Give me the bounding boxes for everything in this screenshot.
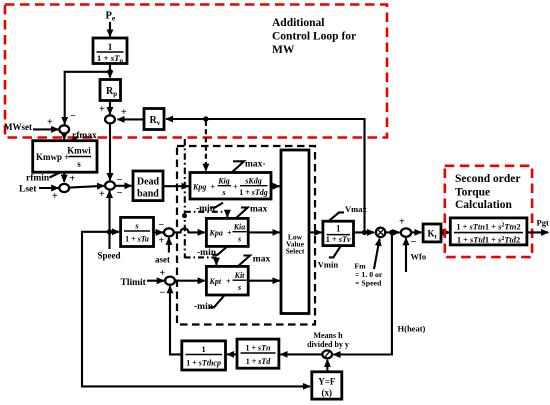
wire S3 to Kt [412,231,422,233]
svg-text:max-: max- [245,160,266,170]
dash-dot tracking horizontal to Kpa [185,211,228,213]
block Kpa + Kia/s [206,218,248,246]
wire Fm to X [374,239,380,269]
summer S1 [105,115,115,123]
svg-text:Y=F: Y=F [318,377,336,387]
wire aset summer to Kpa with hop [174,228,205,232]
svg-text:s: s [237,235,241,244]
summer Tlimit [165,277,175,285]
svg-text:rfmin: rfmin [26,174,50,184]
junction dot after X [389,230,394,235]
svg-text:Kmwp +: Kmwp + [36,152,69,162]
svg-text:-min: -min [197,248,217,258]
limit tick min Kpa [213,246,228,254]
svg-text:band: band [137,189,159,200]
divider circle h/y [322,350,332,358]
svg-text:+: + [211,183,216,192]
block 1/(1+sTv) [323,221,354,245]
summer MWset [59,125,69,133]
wire Y=F to divider [326,360,328,372]
svg-text:1 + sTtn1 + s2Ttn2: 1 + sTtn1 + s2Ttn2 [456,222,520,231]
wire sTa block to aset summer [154,231,163,233]
block s/(1+sTa) [121,217,154,246]
svg-text:−: − [160,288,166,299]
svg-text:Kpt: Kpt [209,277,222,286]
svg-text:+: + [47,117,53,128]
svg-text:−: − [70,111,76,122]
wire Tlimit summer to Kpt [175,280,204,282]
svg-text:−: − [117,175,123,186]
multiplier X [376,228,385,237]
svg-text:+: + [226,277,231,286]
svg-text:aset: aset [155,255,170,265]
wire Tthcp block to Tlimit summer [170,286,182,354]
wire H(heat): junction down and left to divider [333,232,392,354]
wire Kmw block to Lset summer [63,172,65,182]
svg-text:Kit: Kit [234,271,246,280]
svg-text:Control Loop for: Control Loop for [272,31,356,43]
svg-text:Dead: Dead [137,177,160,188]
black dashed controller box [177,146,315,325]
block Dead band [133,171,163,201]
svg-text:max: max [253,254,271,264]
svg-text:MWset: MWset [4,122,32,132]
svg-text:divided by y: divided by y [307,340,349,349]
wire Kt to torque block [441,231,450,233]
label Second order Torque Calculation [455,173,520,211]
label: Additional Control Loop for MW [272,17,356,56]
svg-text:−: − [411,237,417,248]
limit tick min Kpg [210,203,223,208]
label Fm = 1.0 or = Speed [354,262,383,288]
svg-text:Tlimit: Tlimit [121,278,147,288]
limit tick max Kpa [236,208,248,219]
block 1/(1+sTp) [93,38,127,65]
svg-text:H(heat): H(heat) [398,324,426,334]
wire Wfo to S3 [405,238,407,272]
limit tick rfmin [50,172,61,177]
svg-text:s: s [77,159,81,169]
svg-text:+: + [52,191,58,202]
svg-text:Additional: Additional [272,17,324,29]
block Kpg + Kig/s + sKdg/(1+sTdg) [190,173,271,200]
wire Kpt to LVS [248,280,279,282]
block (1+sTn)/(1+sTd) [237,339,279,368]
block Kmwp + Kmwi/s [33,141,97,173]
limit tick rfmax [71,137,79,142]
limit tick Vmax [329,212,345,221]
wire Tlimit to summer [147,280,164,282]
svg-text:+: + [233,183,238,192]
svg-text:1: 1 [201,344,205,354]
arrow into Kpt top [215,257,217,265]
junction dot V output [362,230,367,235]
svg-text:= Speed: = Speed [355,279,382,288]
wire Lset summer to S2 [70,186,104,188]
junction dot on tracking line [182,213,187,218]
svg-text:+: + [159,236,165,247]
wire torque block to Pgt output [527,231,548,233]
svg-text:Calculation: Calculation [455,199,512,211]
svg-text:+: + [227,229,232,238]
svg-text:1 + sTa: 1 + sTa [125,235,149,244]
limit tick max Kpg [232,161,244,172]
svg-text:−: − [117,188,123,199]
svg-text:1 + sTtd1 + s2Ttd2: 1 + sTtd1 + s2Ttd2 [457,236,520,245]
svg-text:+: + [160,268,166,279]
block Rv [144,109,164,130]
wire aset up to summer [168,238,170,253]
svg-text:s: s [237,283,241,292]
wire Rp to summer S1 [109,101,111,115]
wire Lset to summer [39,187,58,189]
svg-text:+: + [121,107,127,118]
wire Tn block to Tthcp block [227,353,237,355]
svg-text:Select: Select [286,247,305,256]
wire Kpg to LVS [271,185,280,187]
summer S3 [401,228,411,236]
wire Tv block to junction and X [354,231,375,233]
svg-text:s: s [134,221,139,231]
wire divider to Tn block [281,353,323,355]
svg-text:MW: MW [272,44,295,56]
block Kt [423,224,441,242]
block Rp [100,80,121,101]
svg-text:1 + sTn: 1 + sTn [245,344,271,353]
wire Dead band to Kpg [163,185,189,187]
svg-text:Pgt: Pgt [537,218,549,228]
svg-text:Lset: Lset [19,185,37,195]
wire Pe to block Tp [109,22,111,37]
arrow into Kpa top [226,212,228,217]
wire branch left down to MWset summer [65,72,110,124]
svg-text:+: + [399,217,405,228]
dash-dot tracking horizontal to Kpt [185,256,217,258]
svg-text:max: max [250,205,268,215]
svg-text:+: + [99,104,105,115]
svg-text:1 + sTdg: 1 + sTdg [239,188,268,197]
svg-text:1: 1 [108,42,113,52]
svg-text:1 + sTp: 1 + sTp [97,53,124,65]
svg-text:Wfo: Wfo [411,252,427,262]
svg-text:Kmwi: Kmwi [67,146,91,156]
svg-text:Means h: Means h [313,331,343,340]
svg-text:sKdg: sKdg [244,177,261,186]
svg-text:1 + sTd: 1 + sTd [246,357,272,366]
block 1/(1+sTthcp) [182,341,226,370]
feedback wire V to Rv [166,119,365,232]
wire S1 down to summer S2 [109,124,111,180]
wire Speed junction to sTa block [110,231,120,233]
svg-text:+: + [70,174,76,185]
svg-text:−: − [159,220,165,231]
red dashed box: Additional Control Loop for MW [5,5,387,138]
wire Tp block to Rp block [109,64,111,78]
wire Speed junction to Y=F(x) [82,232,310,387]
block Y=F(x) [312,372,342,399]
svg-text:1 + sTv: 1 + sTv [326,235,351,244]
svg-text:Second order: Second order [455,173,520,185]
wire X to S3 [386,231,400,233]
block second order torque transfer function [450,218,527,245]
svg-text:Kpa: Kpa [209,229,223,238]
dashed tracking wire into Kpg top [205,121,207,171]
svg-text:Torque: Torque [455,187,490,199]
wire LVS to Tv block [309,231,321,233]
svg-text:Fm: Fm [354,262,366,271]
junction dot Speed [107,229,112,234]
wire Rv to S1 [118,118,145,120]
block Low Value Select [281,150,309,314]
wire Kpa to LVS [248,231,279,233]
svg-text:1 + sTthcp: 1 + sTthcp [186,359,221,368]
wire Speed input up to S2 [108,191,110,249]
label Means h divided by y [307,331,349,349]
junction dot below Tp block [107,69,112,74]
svg-text:(x): (x) [322,388,333,398]
summer S2 [105,181,115,189]
junction dot on Rv feedback line [203,116,208,121]
svg-text:Kig: Kig [217,177,230,186]
limit tick max Kpt [238,256,250,267]
dash-dot tracking vertical [184,139,186,258]
limit tick Vmin [329,246,341,257]
wire MWset to summer [33,128,58,130]
svg-text:Kia: Kia [233,223,246,232]
red dashed box: Second order Torque Calculation [445,166,532,257]
summer Lset [59,184,69,192]
svg-text:s: s [221,188,225,197]
wire MWset summer to Kmw block [63,134,65,140]
svg-text:Kpg: Kpg [192,183,206,192]
limit tick min Kpt [210,296,225,308]
svg-text:1: 1 [336,223,341,233]
wire S2 to Dead band [116,185,132,187]
svg-text:+: + [99,189,105,200]
svg-text:Speed: Speed [98,251,121,261]
svg-text:Vmin: Vmin [318,259,339,269]
block Kpt + Kit/s [206,266,248,295]
summer aset [164,228,174,236]
